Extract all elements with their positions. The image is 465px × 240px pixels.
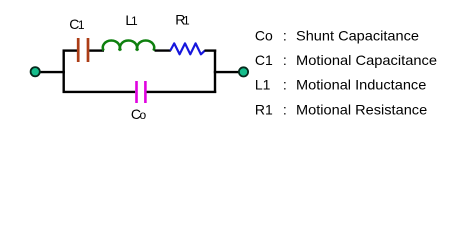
svg-text:Motional Resistance: Motional Resistance bbox=[296, 102, 427, 118]
wire: top branch stub to C1 bbox=[63, 49, 77, 51]
inductor L1 coil 2 bbox=[120, 40, 137, 50]
wire: right vertical bus bbox=[214, 50, 216, 94]
svg-text:L1: L1 bbox=[255, 77, 271, 93]
svg-text:Motional Capacitance: Motional Capacitance bbox=[296, 52, 437, 68]
capacitor C0 left plate bbox=[135, 81, 138, 103]
inductor L1 coil 1 bbox=[103, 40, 120, 50]
terminal: left pin bbox=[31, 67, 40, 76]
svg-text:Shunt Capacitance: Shunt Capacitance bbox=[296, 27, 419, 43]
svg-text:Co: Co bbox=[255, 27, 273, 43]
wire: bottom branch right of C0 bbox=[147, 91, 217, 93]
svg-text::: : bbox=[283, 52, 287, 68]
wire: L1 to R1 bbox=[155, 49, 171, 51]
svg-text::: : bbox=[283, 27, 287, 43]
svg-text::: : bbox=[283, 102, 287, 118]
capacitor C1 left plate bbox=[77, 38, 80, 62]
svg-text:L1: L1 bbox=[125, 12, 138, 28]
wire: C1 to L1 bbox=[89, 49, 104, 51]
wire: left terminal lead bbox=[39, 71, 65, 73]
svg-text::: : bbox=[283, 77, 287, 93]
svg-text:R1: R1 bbox=[175, 11, 190, 27]
svg-text:R1: R1 bbox=[255, 102, 273, 118]
wire: left vertical bus bbox=[63, 50, 65, 94]
svg-text:C1: C1 bbox=[255, 52, 273, 68]
wire: right terminal lead bbox=[214, 71, 240, 73]
capacitor C0 right plate bbox=[144, 81, 147, 103]
svg-text:Co: Co bbox=[131, 106, 147, 122]
svg-text:C1: C1 bbox=[69, 16, 85, 32]
inductor L1 coil 3 bbox=[137, 40, 154, 50]
resistor R1 bbox=[170, 43, 205, 54]
terminal: right pin bbox=[239, 67, 248, 76]
svg-text:Motional Inductance: Motional Inductance bbox=[296, 77, 427, 93]
wire: bottom branch left of C0 bbox=[63, 91, 136, 93]
wire: R1 to right vertical bbox=[205, 49, 217, 51]
capacitor C1 right plate bbox=[87, 38, 90, 62]
